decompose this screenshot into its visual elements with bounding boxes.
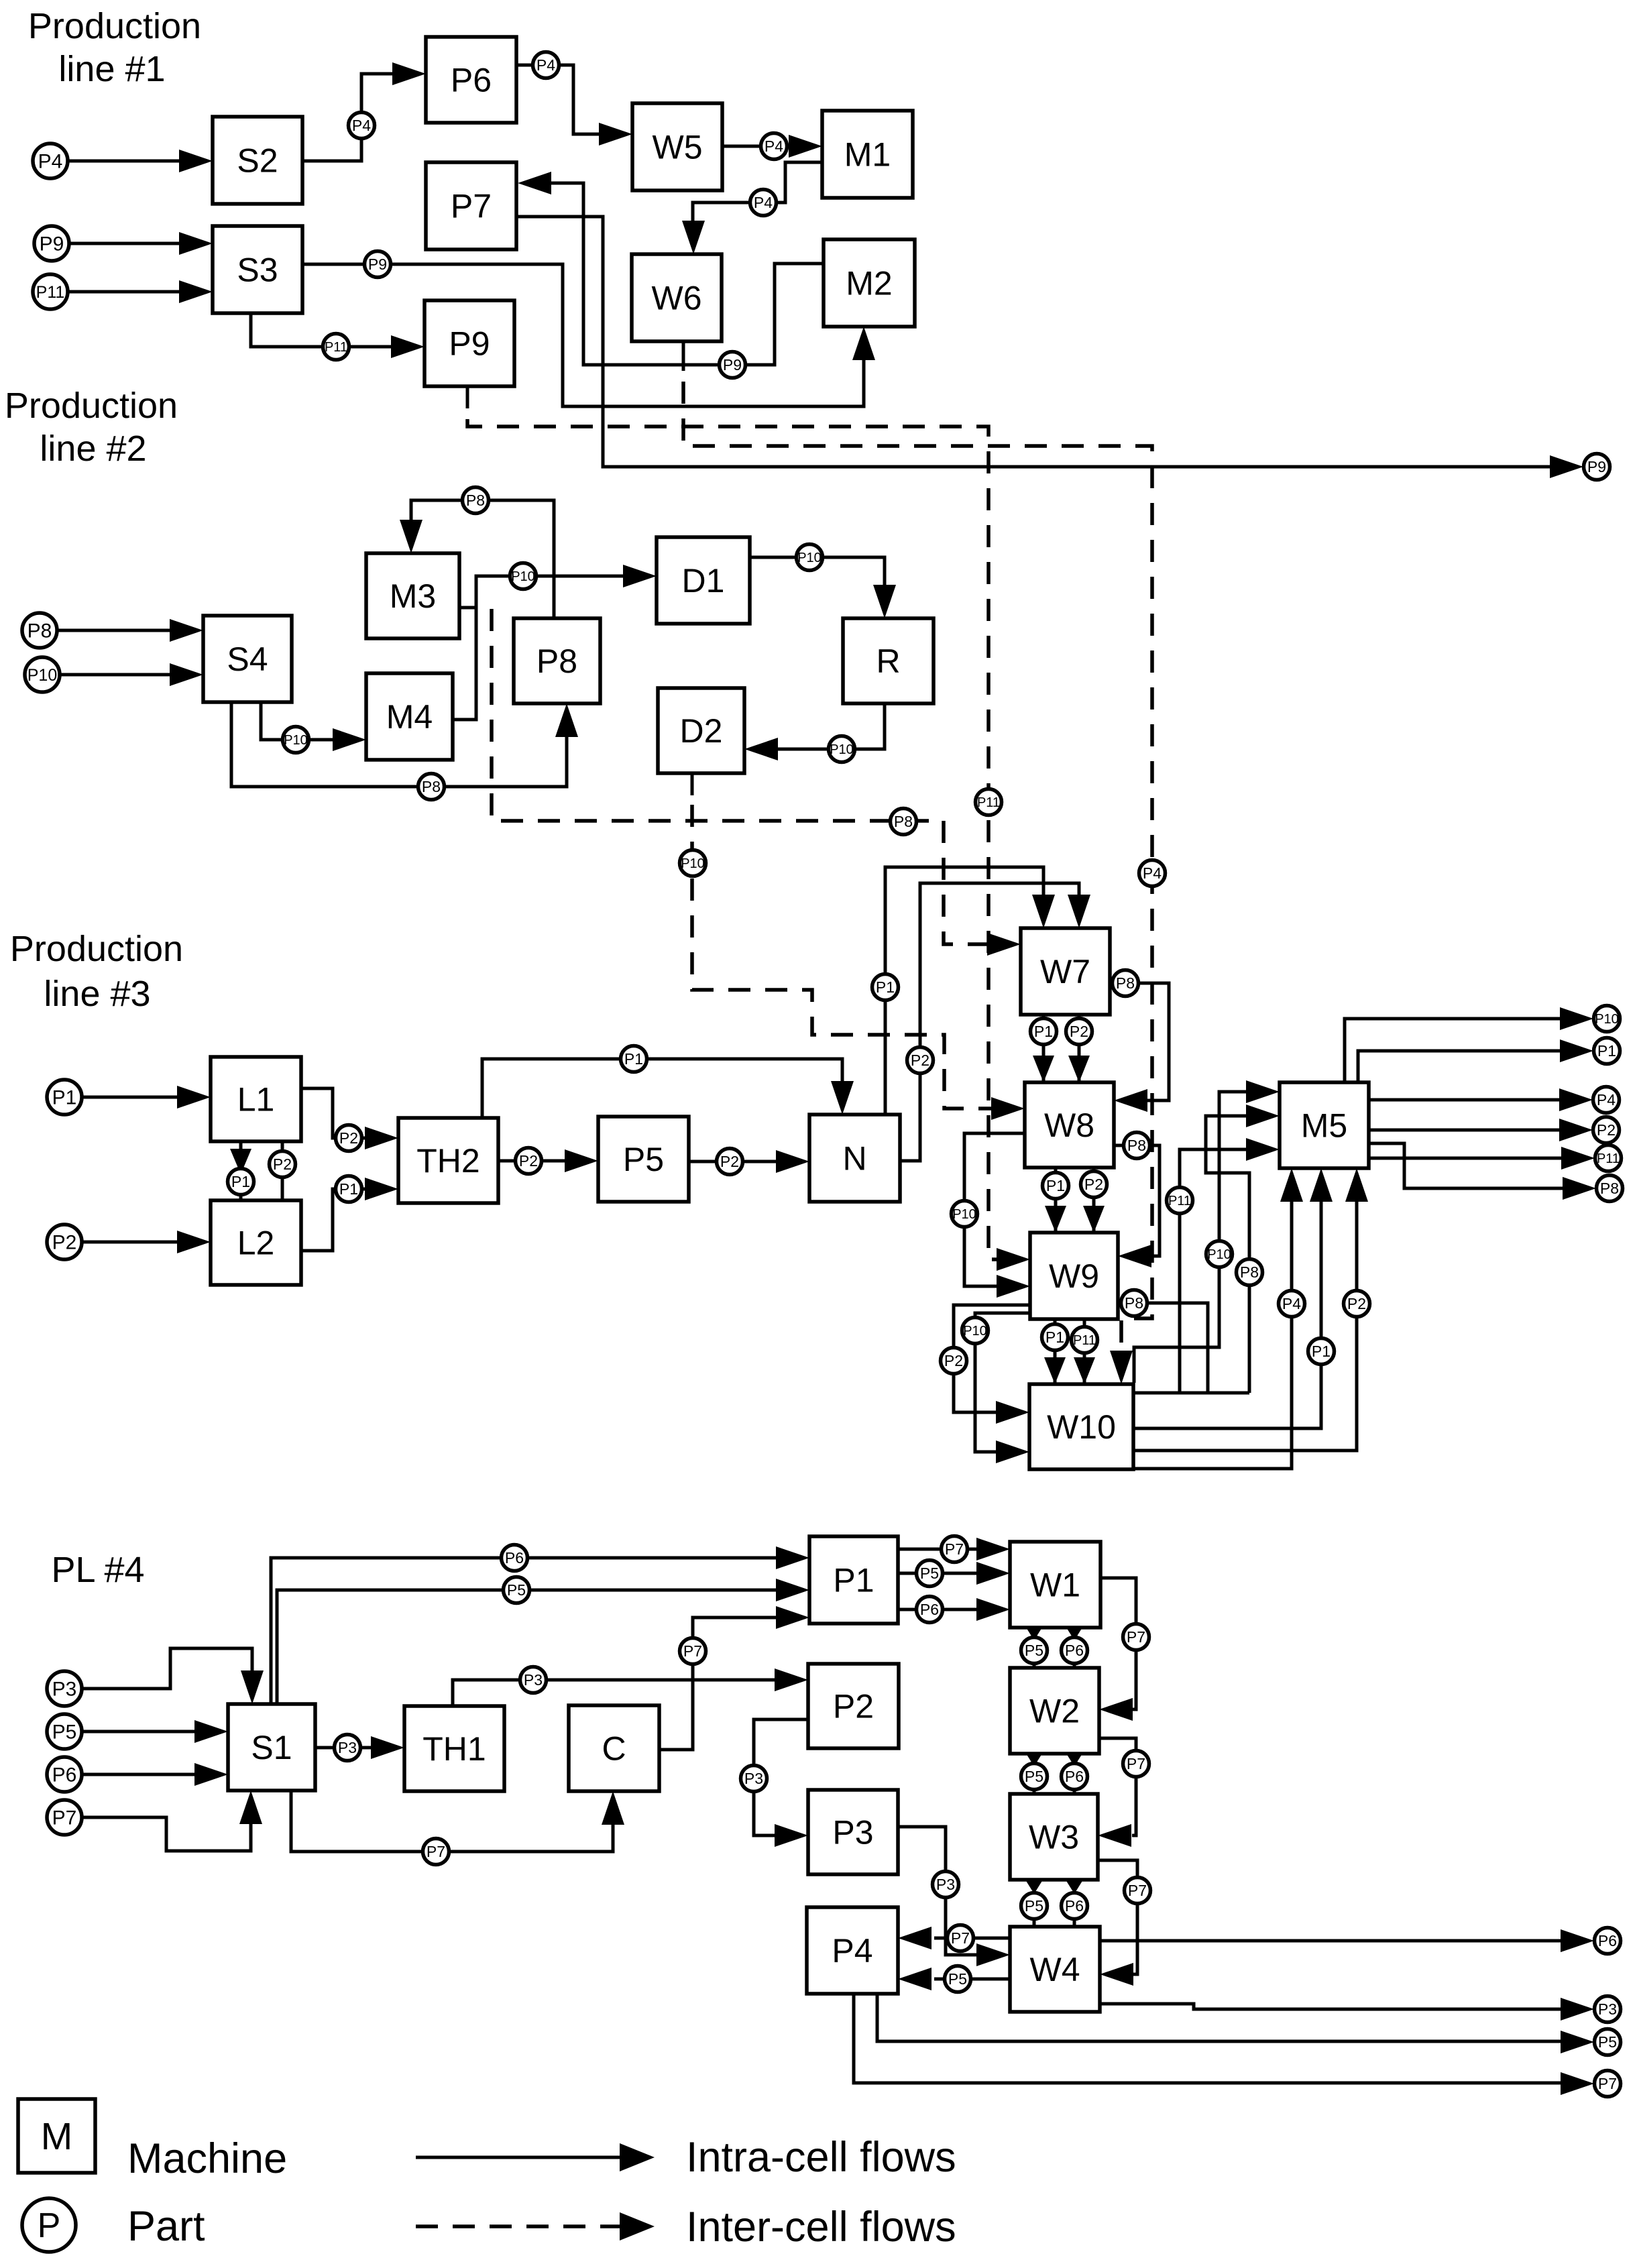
wire S3 to M2 (part P9)	[302, 264, 864, 406]
wire TH1 to P2 box (part P3)	[453, 1680, 777, 1706]
svg-text:P5: P5	[1025, 1642, 1043, 1659]
arrowhead W1-W2 P6	[1064, 1624, 1084, 1640]
svg-text:Inter-cell flows: Inter-cell flows	[686, 2204, 956, 2251]
svg-text:P4: P4	[1282, 1295, 1301, 1312]
svg-text:D2: D2	[680, 712, 723, 750]
wire M5 to output P8	[1369, 1143, 1564, 1188]
part P4 output	[1593, 1087, 1620, 1113]
wire W8 to W9 (part P8)	[1114, 1145, 1160, 1256]
svg-text:P6: P6	[1598, 1932, 1617, 1949]
machine M5	[1280, 1082, 1369, 1168]
part P1 on TH2-N	[621, 1046, 647, 1072]
wire W2 to W3 (part P7)	[1099, 1738, 1136, 1835]
svg-text:P4: P4	[537, 56, 555, 74]
svg-text:W7: W7	[1040, 953, 1090, 990]
svg-text:P10: P10	[963, 1324, 987, 1339]
arrowhead into M5 bottom	[1345, 1168, 1368, 1202]
svg-text:W9: W9	[1049, 1257, 1099, 1295]
arrowhead L1 to L2	[230, 1149, 251, 1174]
part P5 on W1-W2	[1021, 1638, 1048, 1664]
part P6 output	[1595, 1928, 1621, 1954]
arrowhead output P11	[1561, 1147, 1595, 1170]
svg-text:P7: P7	[427, 1843, 445, 1860]
svg-text:P5: P5	[1598, 2033, 1617, 2051]
wire M1 to W6 (part P4)	[693, 162, 822, 223]
svg-text:Production: Production	[28, 6, 201, 46]
part P8 on P8-M3	[463, 488, 489, 514]
part P2 on L2-L1	[270, 1151, 296, 1178]
arrowhead output P5	[1561, 2031, 1594, 2053]
svg-text:Production: Production	[10, 929, 183, 969]
svg-text:P9: P9	[449, 325, 490, 363]
svg-text:S3: S3	[237, 251, 278, 289]
part P2 on W10-M5	[1344, 1291, 1370, 1317]
svg-text:P4: P4	[765, 137, 783, 155]
svg-text:M2: M2	[846, 265, 892, 302]
arrowhead into M3 top	[400, 520, 422, 553]
svg-text:P6: P6	[920, 1601, 939, 1618]
arrowhead into P8 box bottom	[555, 703, 578, 737]
svg-text:R: R	[876, 642, 900, 680]
wire W4 to P4 box (part P7)	[934, 1937, 1010, 1940]
part P1 output	[1594, 1038, 1620, 1064]
part P11 output	[1595, 1145, 1622, 1172]
part P6 on W2-W3	[1062, 1764, 1088, 1790]
wire P6 to W5 (part P4)	[516, 65, 601, 134]
svg-text:P3: P3	[1598, 2000, 1617, 2018]
wire S2 to P6 (part P4)	[302, 74, 394, 161]
svg-text:P11: P11	[1597, 1151, 1620, 1166]
wire part P9 input to S3	[70, 242, 181, 245]
part P1 on W8-W9	[1043, 1173, 1069, 1199]
machine L2	[211, 1200, 301, 1285]
part P7 on W2-W3	[1123, 1751, 1149, 1777]
svg-text:P9: P9	[723, 356, 742, 374]
svg-text:P8: P8	[1125, 1294, 1143, 1312]
machine W9	[1030, 1233, 1118, 1319]
part P1 input	[47, 1080, 82, 1115]
part P7 on W4-P4	[948, 1925, 974, 1951]
arrowhead output P7	[1561, 2072, 1594, 2095]
svg-text:P7: P7	[1128, 1882, 1147, 1899]
arrowhead output P4	[1559, 1088, 1593, 1111]
part P10 output	[1594, 1006, 1620, 1032]
machine L1	[211, 1057, 301, 1141]
legend machine symbol	[18, 2099, 95, 2173]
svg-text:W6: W6	[652, 280, 702, 317]
part P6 on W3-W4	[1062, 1893, 1088, 1919]
machine TH2	[398, 1118, 498, 1203]
wire L2 to TH2 (part P1)	[301, 1189, 367, 1251]
wire M4 to D1 (part P10)	[453, 576, 625, 720]
svg-text:P11: P11	[1073, 1333, 1096, 1348]
part P9 on M2-P7	[720, 352, 746, 378]
machine P5	[598, 1117, 689, 1202]
svg-text:D1: D1	[682, 562, 725, 600]
svg-text:P4: P4	[832, 1932, 872, 1970]
part P7 output	[1595, 2071, 1621, 2097]
arrowhead into W7 top	[1032, 895, 1055, 928]
arrowhead into L1 left	[177, 1086, 211, 1109]
part P2 on P5-N	[717, 1149, 743, 1175]
part P11 on bus-M5	[1167, 1188, 1193, 1214]
part P1 on W9-W10	[1042, 1324, 1068, 1351]
machine P7	[426, 162, 516, 249]
arrowhead into N left	[776, 1150, 809, 1173]
wire W7 to W8 (part P8)	[1110, 983, 1169, 1100]
arrowhead output P10	[1560, 1007, 1593, 1030]
part P11 on W9-W10	[1072, 1327, 1098, 1353]
svg-text:P9: P9	[368, 256, 387, 273]
svg-text:P8: P8	[894, 813, 913, 830]
arrowhead into P6 left	[392, 62, 426, 85]
svg-text:L2: L2	[237, 1225, 275, 1262]
machine D1	[657, 537, 750, 624]
arrowhead into M2 bottom	[852, 327, 875, 360]
arrowhead into W10 top	[1074, 1357, 1095, 1384]
arrowhead into W9 top	[1083, 1206, 1105, 1233]
wire P3 box to W4 (part P3)	[898, 1827, 978, 1955]
svg-text:P1: P1	[1034, 1023, 1053, 1040]
part P8 on W8-W9	[1124, 1133, 1150, 1159]
svg-text:P8: P8	[1240, 1263, 1259, 1281]
arrowhead into M5 bottom	[1310, 1168, 1333, 1202]
wire P4 box to output P5	[877, 1994, 1562, 2041]
svg-text:P1: P1	[876, 978, 895, 996]
wire W2 to W3 (part P6)	[1073, 1754, 1076, 1794]
part P2 on N-W7	[907, 1047, 934, 1074]
arrowhead into P1 box left	[776, 1606, 809, 1629]
part P9 on S3-M2	[365, 251, 391, 278]
svg-text:P7: P7	[1598, 2075, 1617, 2092]
svg-text:P5: P5	[1025, 1897, 1043, 1915]
wire C to P1 box (part P7)	[659, 1618, 778, 1750]
part P5 on W4-P4	[945, 1966, 971, 1992]
legend inter-cell arrowhead	[620, 2212, 655, 2241]
svg-text:P1: P1	[1046, 1177, 1065, 1194]
wire W9 to W10 (part P11)	[1083, 1319, 1086, 1384]
svg-text:P2: P2	[944, 1352, 963, 1369]
svg-text:P2: P2	[720, 1153, 739, 1170]
machine P3	[808, 1790, 898, 1874]
wire W10 to M5 via P10	[1134, 1092, 1246, 1383]
arrowhead into S4 left	[170, 619, 203, 642]
arrowhead into W8 right	[1114, 1089, 1147, 1112]
wire W9 to W10 (part P10)	[975, 1313, 1030, 1452]
svg-text:P3: P3	[52, 1679, 77, 1701]
arrowhead W2-W3 P6	[1064, 1750, 1084, 1766]
svg-text:P7: P7	[451, 188, 492, 225]
wire P8 box to M3 (part P8)	[411, 500, 554, 618]
arrowhead into P9 box left	[391, 335, 425, 358]
svg-text:M3: M3	[390, 577, 436, 615]
wire part P11 input to S3	[69, 290, 181, 294]
part P5 on W2-W3	[1021, 1764, 1048, 1790]
svg-text:P1: P1	[833, 1562, 874, 1599]
wire S4 to P8 box (part P8)	[231, 702, 567, 787]
arrowhead L2 to L1	[272, 1148, 293, 1174]
svg-text:P2: P2	[52, 1232, 77, 1254]
part P2 on W8-W9	[1081, 1172, 1107, 1198]
wire L1 to TH2 (part P2)	[301, 1088, 367, 1138]
arrowhead dashed into W10 top	[1110, 1351, 1133, 1384]
legend part symbol	[22, 2198, 76, 2252]
part P10 on W10-M5	[1206, 1241, 1233, 1267]
machine W8	[1025, 1082, 1114, 1168]
machine W7	[1021, 928, 1110, 1015]
wire W2 to W3 (part P5)	[1033, 1754, 1036, 1794]
svg-text:P5: P5	[1025, 1768, 1043, 1785]
svg-text:P10: P10	[797, 551, 822, 565]
arrowhead into P5 left	[565, 1149, 598, 1172]
legend inter-cell arrow	[416, 2224, 621, 2228]
svg-text:P4: P4	[38, 151, 63, 173]
svg-text:Production: Production	[5, 386, 178, 426]
svg-text:C: C	[602, 1730, 626, 1768]
part P8 output	[1597, 1176, 1623, 1202]
svg-text:P4: P4	[1143, 864, 1162, 882]
arrowhead into L2 left	[177, 1231, 211, 1253]
wire part P5 input to S1	[83, 1730, 196, 1734]
arrowhead output P8	[1563, 1177, 1596, 1200]
machine W2	[1010, 1668, 1099, 1754]
svg-text:S2: S2	[237, 142, 278, 180]
wire S3 to P9 box (part P11)	[251, 313, 393, 347]
arrowhead into W1 left	[976, 1562, 1010, 1585]
arrowhead W2-W3 P5	[1024, 1750, 1044, 1766]
svg-text:P11: P11	[977, 795, 1000, 810]
svg-text:P6: P6	[52, 1764, 77, 1787]
part P4 input	[33, 144, 68, 178]
part P6 on S1-P1	[502, 1545, 528, 1571]
part P10 on S4-M4	[283, 727, 309, 753]
arrowhead into TH2 left	[365, 1178, 398, 1200]
arrowhead into W9 top	[1045, 1206, 1066, 1233]
arrowhead into D1 left	[623, 565, 657, 587]
arrowhead into S1 top	[241, 1670, 264, 1704]
arrowhead W1-W2 P5	[1024, 1624, 1044, 1640]
arrowhead into W7 top	[1068, 895, 1090, 928]
part P8 on W7-W8	[1113, 970, 1139, 997]
wire W3 to W4 (part P5)	[1033, 1880, 1036, 1927]
svg-text:P10: P10	[511, 569, 535, 584]
wire W3 to W4 (part P7)	[1098, 1860, 1137, 1974]
svg-text:P10: P10	[830, 742, 854, 757]
wire S1 to C (part P7)	[291, 1791, 613, 1852]
wire W4 to output P6	[1100, 1939, 1562, 1943]
arrowhead into TH1 left	[371, 1736, 404, 1759]
svg-text:P2: P2	[1084, 1176, 1103, 1193]
part P6 input	[47, 1757, 82, 1792]
svg-text:M4: M4	[386, 698, 433, 736]
svg-text:P3: P3	[832, 1814, 873, 1852]
svg-text:W10: W10	[1047, 1408, 1116, 1446]
arrowhead into W2 right	[1099, 1698, 1133, 1721]
part P4 on W6 dashed	[1139, 860, 1166, 887]
arrowhead into W5 left	[599, 123, 632, 146]
svg-text:P4: P4	[754, 194, 773, 211]
svg-text:P10: P10	[1207, 1247, 1231, 1262]
wire W8 to W9 (part P2)	[1092, 1168, 1096, 1233]
part P8 input	[22, 613, 57, 648]
arrowhead into S1 left	[194, 1763, 228, 1786]
part P4 on P6-W5	[533, 52, 559, 78]
arrowhead into W1 left	[976, 1538, 1010, 1561]
part P10 input	[25, 657, 60, 692]
wire S1 to P1 box (part P5)	[277, 1590, 778, 1704]
wire N to W7 (part P2)	[900, 883, 1079, 1161]
wire L2 to L1 (part P2)	[281, 1141, 284, 1200]
svg-text:P6: P6	[1065, 1897, 1084, 1915]
machine M3	[366, 553, 459, 638]
svg-text:P10: P10	[284, 733, 308, 748]
wire W4 to output P3	[1100, 2004, 1562, 2009]
arrowhead into M5 bottom	[1280, 1168, 1303, 1202]
part P1 on L1-L2	[228, 1169, 254, 1195]
svg-text:P7: P7	[683, 1642, 702, 1660]
machine M4	[366, 673, 453, 760]
wire W1 to W2 (part P7)	[1100, 1578, 1136, 1709]
arrowhead into M5 left	[1246, 1104, 1280, 1127]
svg-text:W8: W8	[1044, 1107, 1094, 1144]
arrowhead into S2 left	[179, 150, 213, 172]
wire part P2 input to L2	[83, 1241, 179, 1244]
arrowhead into M1 left	[789, 135, 822, 158]
arrowhead into W8 top	[1033, 1056, 1054, 1082]
part P5 output	[1595, 2029, 1621, 2055]
legend intra-cell arrowhead	[620, 2143, 655, 2171]
svg-text:P6: P6	[451, 62, 492, 99]
part P2 input	[47, 1225, 82, 1259]
wire stub D2 bottom	[691, 773, 694, 795]
wire P5 to N (part P2)	[689, 1160, 778, 1164]
arrowhead output P1	[1560, 1039, 1593, 1062]
arrowhead into W4 right	[1100, 1963, 1133, 1986]
part P10 on D1-R	[797, 545, 823, 571]
wire W1 to W2 (part P6)	[1073, 1628, 1076, 1668]
arrowhead into P3 box left	[775, 1824, 808, 1847]
svg-text:P3: P3	[936, 1876, 955, 1893]
arrowhead into P4 box right	[898, 1927, 932, 1949]
part P1 on L2-TH2	[336, 1176, 362, 1202]
svg-text:P2: P2	[273, 1155, 292, 1173]
svg-text:P2: P2	[911, 1052, 929, 1069]
svg-text:P2: P2	[1597, 1121, 1616, 1139]
arrowhead into D2 right	[744, 738, 778, 760]
machine M1	[822, 111, 913, 198]
arrowhead into P1 box left	[776, 1579, 809, 1601]
arrowhead into W8 top	[1068, 1056, 1090, 1082]
wire M5 to output P11	[1369, 1157, 1563, 1160]
svg-text:W5: W5	[653, 129, 703, 166]
wire P1 box to W1 (part P6)	[898, 1608, 978, 1611]
wire P4 box to output P7	[854, 1994, 1562, 2083]
dashed inter-cell P9 box to W9	[467, 419, 999, 1259]
machine S4	[203, 616, 292, 702]
part P11 on S3-P9	[323, 334, 349, 360]
arrowhead into S3 left	[179, 232, 213, 255]
part P9 output	[1584, 454, 1610, 480]
svg-text:P6: P6	[1065, 1768, 1084, 1785]
wire M5 to output P1	[1358, 1051, 1561, 1082]
dashed inter-cell W6 to W10 (part P4)	[683, 382, 1152, 1353]
part P5 input	[47, 1714, 82, 1749]
svg-text:P8: P8	[1127, 1137, 1146, 1154]
part P8 on S4-P8	[418, 774, 445, 800]
svg-text:P7: P7	[951, 1929, 970, 1947]
part P6 on W1-W2	[1062, 1638, 1088, 1664]
svg-text:W4: W4	[1030, 1951, 1080, 1988]
svg-text:P5: P5	[52, 1721, 77, 1744]
svg-text:P: P	[38, 2206, 61, 2245]
machine W6	[632, 254, 722, 341]
svg-text:P1: P1	[1597, 1042, 1616, 1060]
svg-text:TH2: TH2	[416, 1142, 479, 1180]
part P2 on L1-TH2	[336, 1125, 362, 1151]
wire M5 to output P10	[1345, 1019, 1561, 1082]
svg-text:line #1: line #1	[58, 49, 165, 89]
part P8 on M3 dashed	[891, 809, 917, 835]
arrowhead into W10 left	[996, 1401, 1029, 1424]
part P4 on S2-P6	[349, 113, 375, 139]
part P11 on P9 dashed	[976, 789, 1002, 815]
arrowhead into S1 left	[194, 1720, 228, 1743]
svg-text:P10: P10	[1595, 1012, 1619, 1027]
arrowhead W3-W4 P5	[1024, 1878, 1044, 1894]
arrowhead output P2	[1559, 1119, 1593, 1141]
svg-text:Intra-cell flows: Intra-cell flows	[686, 2134, 956, 2181]
dashed inter-cell M3 to W7 (part P8)	[492, 609, 989, 944]
machine P9	[425, 300, 514, 386]
dashed inter-cell D2 to W8 (part P10)	[692, 805, 993, 1109]
wire W9 to W10 (part P2)	[954, 1305, 1030, 1412]
arrowhead into W9 left	[997, 1275, 1030, 1298]
svg-text:line #3: line #3	[44, 974, 150, 1014]
svg-text:P2: P2	[1070, 1023, 1088, 1040]
wire part P8 input to S4	[58, 629, 172, 632]
wire W9 to W10 (part P1)	[1054, 1319, 1057, 1384]
svg-text:M5: M5	[1301, 1107, 1347, 1145]
machine P4	[807, 1907, 898, 1994]
arrowhead into M4 left	[333, 728, 366, 751]
part P10 on W8-W9	[952, 1201, 978, 1227]
part P5 on S1-P1	[504, 1577, 530, 1603]
arrowhead into W4 left	[976, 1943, 1010, 1966]
part P4 on W10-M5	[1279, 1291, 1305, 1317]
part P10 on R-D2	[829, 736, 855, 762]
svg-text:P8: P8	[27, 620, 52, 642]
arrowhead into W6 top	[682, 221, 705, 254]
svg-text:M: M	[41, 2115, 72, 2158]
svg-text:P3: P3	[744, 1770, 763, 1787]
svg-text:TH1: TH1	[422, 1730, 486, 1768]
svg-text:P8: P8	[537, 642, 577, 680]
wire S4 to M4 (part P10)	[261, 702, 335, 740]
part P3 on P3-W4	[933, 1872, 959, 1898]
arrowhead into S4 left	[170, 663, 203, 686]
wire W10 to M5 (part P1)	[1134, 1200, 1321, 1428]
svg-text:N: N	[842, 1140, 866, 1178]
svg-text:P1: P1	[624, 1050, 643, 1068]
machine W3	[1010, 1794, 1098, 1880]
part P10 on M4-D1	[510, 563, 537, 589]
wire bus to M5 via P11	[1180, 1149, 1246, 1393]
svg-text:W3: W3	[1029, 1819, 1079, 1856]
svg-text:P2: P2	[519, 1152, 538, 1170]
wire M3 junction to D1 (part P10)	[459, 606, 476, 610]
machine TH1	[404, 1706, 504, 1791]
part P7 on C-P1	[680, 1638, 706, 1664]
